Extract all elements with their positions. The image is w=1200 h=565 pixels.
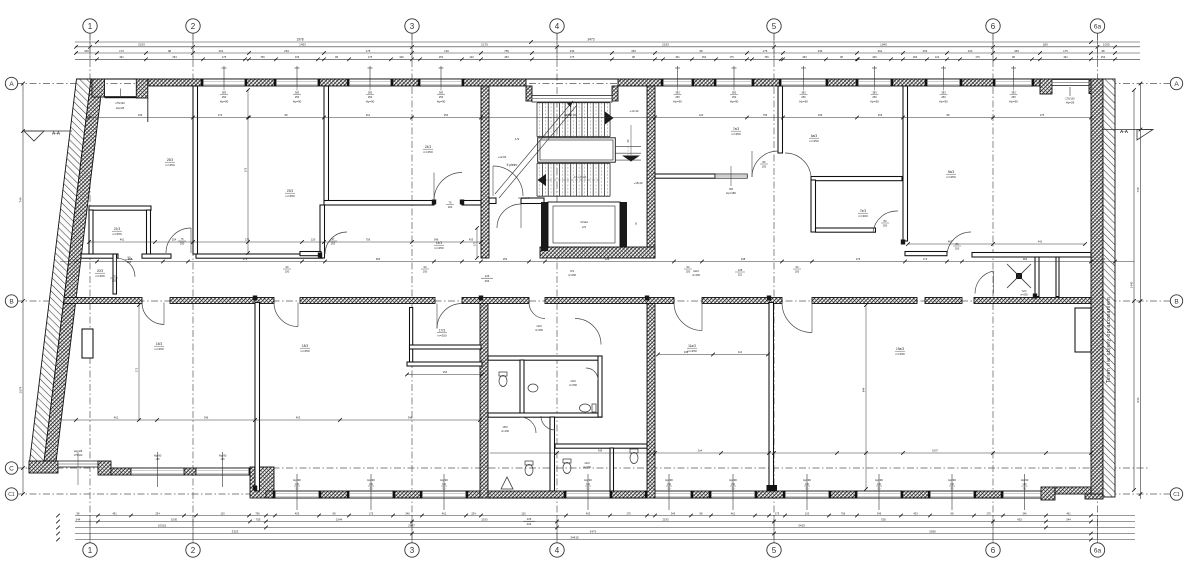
bottom wall band3 segment 4: [466, 491, 566, 498]
svg-text:Hp=90: Hp=90: [870, 100, 879, 104]
svg-text:B: B: [9, 298, 13, 305]
svg-text:Hpr90: Hpr90: [948, 478, 956, 482]
svg-text:A-A: A-A: [1120, 129, 1129, 134]
closet wall 1: [1035, 257, 1039, 297]
svg-text:180: 180: [1043, 43, 1048, 47]
room 17/3 lower wall: [407, 362, 482, 366]
dimension line right side: [1133, 90, 1135, 490]
door arc hall24: [434, 173, 462, 201]
svg-text:75: 75: [181, 237, 184, 241]
wall junction node 6: [318, 253, 322, 258]
door arc room15 (corridor): [142, 303, 164, 325]
svg-text:175: 175: [1040, 113, 1045, 117]
svg-text:120: 120: [521, 511, 526, 515]
svg-text:200: 200: [127, 260, 132, 264]
svg-text:2: 2: [191, 546, 196, 555]
svg-text:18/3: 18/3: [302, 344, 308, 348]
window bottom3 9: [930, 491, 974, 498]
door arc room6a: [785, 153, 811, 177]
svg-text:m=250: m=250: [895, 352, 905, 356]
grid bubble A right: [1170, 77, 1182, 89]
svg-text:C1: C1: [8, 492, 15, 498]
svg-text:383: 383: [872, 91, 877, 95]
svg-text:11a/3: 11a/3: [688, 344, 696, 348]
bottom wall band2 segment 1: [111, 468, 131, 475]
svg-text:+18,40: +18,40: [634, 181, 643, 185]
svg-text:1: 1: [88, 546, 93, 555]
svg-text:80: 80: [763, 160, 766, 164]
WC 5: [630, 453, 638, 464]
svg-text:150: 150: [805, 483, 810, 486]
svg-text:250: 250: [732, 95, 737, 99]
svg-text:m=250: m=250: [583, 465, 592, 469]
svg-text:175: 175: [369, 511, 374, 515]
window top W4: [420, 79, 462, 86]
svg-text:453: 453: [586, 511, 591, 515]
top exterior wall segment 2: [245, 79, 276, 86]
svg-text:90: 90: [806, 488, 809, 491]
grid axis line 3: [411, 33, 413, 543]
svg-text:962: 962: [1023, 257, 1028, 261]
svg-text:120: 120: [311, 238, 316, 242]
stair walk line lower: [545, 179, 600, 181]
svg-text:m=250: m=250: [568, 273, 577, 277]
window top W6: [716, 79, 752, 86]
svg-text:m=250: m=250: [437, 334, 447, 338]
svg-text:250: 250: [368, 95, 373, 99]
svg-text:346: 346: [818, 113, 823, 117]
svg-text:6: 6: [991, 22, 996, 31]
svg-text:755: 755: [256, 517, 261, 521]
grid connector 2 top: [192, 33, 194, 60]
svg-text:150: 150: [586, 483, 591, 486]
svg-text:m=250: m=250: [731, 132, 741, 136]
stair side landing steps: [615, 145, 641, 147]
svg-text:10315: 10315: [158, 523, 167, 527]
svg-text:120: 120: [220, 511, 225, 515]
door arc room9 vestibule: [947, 232, 971, 256]
svg-text:1978: 1978: [296, 38, 303, 42]
svg-text:14/3: 14/3: [584, 461, 590, 465]
svg-text:254: 254: [172, 238, 177, 242]
svg-text:3/3: 3/3: [570, 269, 574, 273]
bath stall partition: [610, 448, 614, 491]
svg-text:5: 5: [772, 22, 777, 31]
window bottom3 5: [647, 491, 691, 498]
svg-text:m=250: m=250: [946, 175, 956, 179]
svg-text:254: 254: [172, 55, 177, 59]
top wall outer face line: [97, 78, 1091, 80]
svg-text:90: 90: [587, 488, 590, 491]
grid connector 2 bottom: [192, 515, 194, 543]
wall junction block: [767, 485, 778, 492]
svg-text:7e/3: 7e/3: [860, 209, 866, 213]
svg-text:Teren nie objety opracowaniem: Teren nie objety opracowaniem: [1106, 297, 1112, 383]
svg-text:344: 344: [76, 517, 81, 521]
top exterior wall segment 4: [391, 79, 420, 86]
wall room25/23 (grid2): [193, 86, 198, 254]
window bottom3 6: [711, 491, 755, 498]
top wall notch pier right-end: [1040, 79, 1052, 94]
svg-text:150: 150: [369, 483, 374, 486]
svg-text:1040: 1040: [880, 43, 887, 47]
svg-text:200: 200: [423, 270, 428, 274]
stair direction line: [495, 101, 573, 194]
window top W2: [276, 79, 318, 86]
corridor lower wall B1: [64, 298, 142, 304]
grid bubble 5 top: [767, 19, 781, 33]
grid connector 5 top: [773, 33, 775, 60]
bottom wall band2 segment 3: [249, 468, 252, 475]
bottom wall band3 segment 8: [829, 491, 857, 498]
stair core west wall: [481, 86, 489, 258]
svg-text:3415: 3415: [798, 523, 805, 527]
bottom wall band2 segment 2: [184, 468, 196, 475]
svg-text:756: 756: [763, 113, 768, 117]
svg-text:+12,81: +12,81: [498, 155, 507, 159]
svg-text:98: 98: [700, 511, 703, 515]
WC 1: [499, 376, 507, 387]
svg-text:180: 180: [1101, 257, 1106, 261]
svg-text:2/3: 2/3: [582, 225, 586, 229]
svg-text:200: 200: [762, 165, 767, 169]
svg-text:Hp=90: Hp=90: [366, 100, 375, 104]
svg-text:348: 348: [741, 257, 746, 261]
grid axis line 5: [773, 33, 775, 543]
svg-text:Hpr90: Hpr90: [665, 478, 673, 482]
window top W9: [927, 79, 960, 86]
top exterior wall segment 3: [318, 79, 349, 86]
svg-text:175: 175: [1063, 49, 1068, 53]
svg-text:1440: 1440: [1130, 281, 1134, 288]
corridor lower wall B6: [702, 298, 782, 304]
svg-text:1: 1: [88, 22, 93, 31]
dimension chain bottom 2: [75, 521, 1135, 523]
svg-text:Hp=180: Hp=180: [726, 191, 736, 195]
bath wall v1: [520, 360, 524, 416]
svg-text:m=250: m=250: [809, 139, 819, 143]
vestibule wall right: [905, 252, 947, 256]
wall junction node 9: [432, 200, 436, 205]
svg-text:6a/3: 6a/3: [693, 269, 699, 273]
svg-text:254: 254: [439, 55, 444, 59]
svg-text:461: 461: [120, 238, 125, 242]
grid bubble 6 top: [986, 19, 1000, 33]
room 17/3 dim line: [407, 374, 482, 376]
svg-text:m=250: m=250: [154, 347, 164, 351]
svg-text:263: 263: [331, 242, 336, 246]
corridor upper wall L3: [196, 254, 322, 258]
svg-text:90: 90: [370, 488, 373, 491]
svg-text:756: 756: [366, 238, 371, 242]
svg-text:15/3: 15/3: [502, 425, 508, 429]
WC 3: [525, 465, 533, 476]
grid bubble 2 top: [186, 19, 200, 33]
bottom wall step block 1: [98, 461, 111, 475]
svg-text:3473: 3473: [590, 529, 597, 533]
svg-text:175: 175: [775, 511, 780, 515]
grid connector 3 top: [411, 33, 413, 60]
grid bubble C1 right: [1170, 488, 1182, 500]
svg-text:756: 756: [260, 55, 265, 59]
bottom wall right segment: [1055, 487, 1091, 494]
svg-text:17/3: 17/3: [439, 329, 445, 333]
svg-text:453: 453: [295, 511, 300, 515]
svg-text:200: 200: [180, 242, 185, 246]
grid bubble 4 bottom: [550, 543, 564, 557]
bottom wall band3 segment 10: [974, 491, 1003, 498]
svg-text:20/3: 20/3: [97, 269, 103, 273]
stair hall partition: [489, 198, 496, 204]
svg-text:98: 98: [168, 49, 172, 53]
svg-text:6: 6: [991, 546, 996, 555]
svg-text:346: 346: [872, 55, 877, 59]
svg-text:98: 98: [951, 511, 954, 515]
svg-text:530: 530: [881, 517, 886, 521]
svg-text:II pietro: II pietro: [507, 163, 518, 167]
svg-text:126: 126: [485, 274, 490, 278]
svg-text:461: 461: [675, 55, 680, 59]
svg-text:2193: 2193: [662, 517, 669, 521]
svg-text:Hpr90: Hpr90: [367, 478, 375, 482]
svg-text:98: 98: [1012, 55, 1015, 59]
grid axis line C1: [16, 493, 1170, 495]
dimension chain bottom 1: [75, 515, 1135, 517]
svg-text:2193: 2193: [481, 517, 488, 521]
svg-text:461: 461: [119, 55, 124, 59]
bottom wall band3 segment 7: [755, 491, 785, 498]
svg-text:461: 461: [1063, 55, 1068, 59]
grid bubble 3 top: [405, 19, 419, 33]
svg-text:1/3: 1/3: [515, 137, 520, 141]
WC 2: [580, 404, 591, 412]
svg-text:m=300: m=300: [858, 214, 868, 218]
bottom wall band3 segment 3: [393, 491, 422, 498]
svg-text:C: C: [9, 465, 14, 472]
grid axis line 6: [992, 33, 994, 543]
svg-text:254: 254: [471, 511, 476, 515]
bottom wall band3 segment 2: [319, 491, 349, 498]
svg-text:744: 744: [19, 197, 23, 202]
grid axis line C: [16, 467, 1150, 469]
svg-text:346: 346: [295, 55, 300, 59]
bath door arcs: [520, 417, 536, 433]
svg-text:m=250: m=250: [423, 150, 433, 154]
svg-text:150: 150: [731, 483, 736, 486]
svg-text:383: 383: [295, 91, 300, 95]
svg-text:74: 74: [634, 222, 638, 225]
svg-text:120: 120: [444, 49, 449, 53]
stair recess window: [532, 96, 612, 103]
wall 6a vertical: [778, 86, 783, 153]
svg-text:12/3: 12/3: [536, 324, 542, 328]
svg-text:250: 250: [439, 95, 444, 99]
svg-text:173: 173: [119, 49, 124, 53]
svg-text:75: 75: [449, 201, 452, 205]
corridor lower wall B4: [462, 298, 529, 304]
grid axis line 2: [192, 33, 194, 543]
svg-text:Hp=90: Hp=90: [673, 100, 682, 104]
svg-text:173: 173: [923, 257, 928, 261]
internal window Hp=180: [715, 174, 747, 178]
svg-text:175/120: 175/120: [74, 454, 83, 457]
wall lower right rooms: [769, 303, 774, 492]
window top W7: [781, 79, 826, 86]
interior dim line vertical 3: [138, 305, 140, 420]
svg-text:453: 453: [504, 55, 509, 59]
window bottom2 2: [196, 468, 249, 475]
grid bubble B right: [1170, 295, 1182, 307]
room 17/3 west wall: [410, 308, 413, 365]
bottom wall step block 2: [250, 467, 274, 498]
svg-text:1544: 1544: [336, 517, 343, 521]
interior dim line room 11a: [658, 354, 768, 356]
shaft X-box: [1016, 273, 1022, 279]
dimension chain top 2: [75, 46, 1140, 48]
svg-text:Hp=90: Hp=90: [437, 100, 446, 104]
svg-text:461: 461: [1066, 511, 1071, 515]
svg-text:80: 80: [884, 219, 887, 223]
svg-text:250: 250: [295, 95, 300, 99]
svg-text:1030: 1030: [171, 517, 178, 521]
svg-text:254: 254: [913, 55, 918, 59]
svg-text:126: 126: [605, 257, 610, 261]
svg-text:Hp=90: Hp=90: [799, 100, 808, 104]
svg-text:756: 756: [504, 49, 509, 53]
svg-text:175: 175: [986, 511, 991, 515]
bath wall h3: [555, 444, 647, 448]
svg-text:461: 461: [112, 511, 117, 515]
svg-text:346: 346: [399, 55, 404, 59]
svg-text:Hp=90: Hp=90: [220, 100, 229, 104]
door arc room19a: [782, 303, 812, 333]
svg-text:m=250: m=250: [95, 274, 105, 278]
svg-text:644: 644: [862, 387, 866, 392]
grid axis line B: [16, 300, 1170, 302]
window bottom3 2: [349, 491, 393, 498]
svg-text:3x4: 3x4: [698, 449, 703, 453]
svg-text:738: 738: [1136, 187, 1140, 192]
stair top recess stub right: [612, 86, 618, 101]
svg-text:m=250: m=250: [285, 194, 295, 198]
dimension chain top 3: [75, 52, 1140, 54]
svg-text:2193: 2193: [662, 43, 669, 47]
hall upper wall: [324, 201, 434, 206]
svg-text:25/3: 25/3: [167, 158, 173, 162]
svg-text:98: 98: [335, 55, 338, 59]
svg-text:Hp=90: Hp=90: [730, 100, 739, 104]
svg-text:150: 150: [442, 483, 447, 486]
svg-text:90: 90: [286, 265, 289, 269]
shower triangle: [501, 477, 513, 489]
svg-text:251: 251: [738, 273, 743, 277]
svg-text:90: 90: [1023, 488, 1026, 491]
washbasin 1: [528, 384, 538, 392]
svg-text:3: 3: [410, 22, 415, 31]
corridor lower wall B9: [974, 298, 1091, 304]
wall junction node 10: [460, 200, 464, 205]
room 21 east wall: [147, 210, 151, 254]
svg-text:461: 461: [442, 511, 447, 515]
room25 left face line: [147, 98, 149, 122]
room 21 west wall: [89, 210, 93, 254]
corridor lower wall B7: [812, 298, 917, 304]
right wall foot: [1085, 494, 1103, 499]
dimension chain bottom 3: [75, 527, 1135, 529]
window bottom2 1: [131, 468, 184, 475]
grid connector 6a bottom: [1097, 515, 1099, 543]
window top W3: [349, 79, 391, 86]
svg-text:346: 346: [598, 449, 603, 453]
wall room below 15/18: [255, 303, 260, 492]
corridor jog wall: [320, 205, 325, 258]
svg-text:200: 200: [795, 270, 800, 274]
svg-text:m=250: m=250: [569, 383, 578, 387]
section A-A right: [1103, 129, 1153, 131]
svg-text:2170: 2170: [481, 43, 488, 47]
svg-text:120: 120: [699, 113, 704, 117]
svg-text:383: 383: [1011, 91, 1016, 95]
svg-text:346: 346: [204, 416, 209, 420]
svg-text:90: 90: [443, 488, 446, 491]
room 12/3 door arc: [575, 319, 601, 345]
bottom wall right step block: [1041, 487, 1055, 500]
svg-text:90: 90: [796, 265, 799, 269]
svg-text:383: 383: [732, 91, 737, 95]
svg-text:175: 175: [222, 55, 227, 59]
svg-text:25: 25: [626, 139, 630, 142]
grid connector 4 top: [556, 33, 558, 60]
svg-text:m=250: m=250: [165, 163, 175, 167]
corridor upper wall L1: [81, 254, 118, 258]
svg-text:346: 346: [671, 511, 676, 515]
svg-text:m=250: m=250: [692, 273, 701, 277]
svg-text:Hpr90: Hpr90: [729, 478, 737, 482]
svg-text:3x4: 3x4: [738, 350, 743, 354]
corridor wall right segment 2: [972, 253, 1091, 258]
svg-text:4: 4: [555, 546, 560, 555]
svg-text:3: 3: [410, 546, 415, 555]
corridor upper wall L2: [142, 254, 171, 258]
corridor lower wall B5: [545, 298, 674, 304]
top exterior wall segment 10: [891, 79, 927, 86]
corridor lower wall B2: [170, 298, 274, 304]
notch window right (Hp=28): [1052, 80, 1089, 86]
window bottom3 8: [857, 491, 901, 498]
svg-text:1637: 1637: [932, 449, 938, 453]
door arc room11a: [674, 303, 702, 331]
svg-text:175: 175: [135, 367, 139, 372]
grid connector 1 bottom: [89, 515, 91, 543]
svg-text:3473: 3473: [587, 38, 594, 42]
room 8 west wall: [903, 86, 908, 241]
wall junction node 3: [767, 296, 771, 301]
svg-text:Hpr90: Hpr90: [219, 454, 227, 458]
svg-text:6a/3: 6a/3: [811, 134, 817, 138]
svg-text:Hp=28: Hp=28: [1066, 101, 1075, 105]
wall junction node 4: [479, 296, 483, 301]
window bottom3 10: [1003, 491, 1046, 498]
bath wall v3: [598, 356, 602, 417]
svg-text:98: 98: [699, 49, 703, 53]
svg-text:962: 962: [376, 257, 381, 261]
bath wall v2: [550, 417, 555, 491]
svg-text:Hpr90: Hpr90: [154, 454, 162, 458]
duct right wall: [1075, 308, 1091, 352]
interior dim line vertical 2: [865, 305, 867, 489]
svg-text:254: 254: [155, 511, 160, 515]
svg-text:276: 276: [856, 257, 861, 261]
